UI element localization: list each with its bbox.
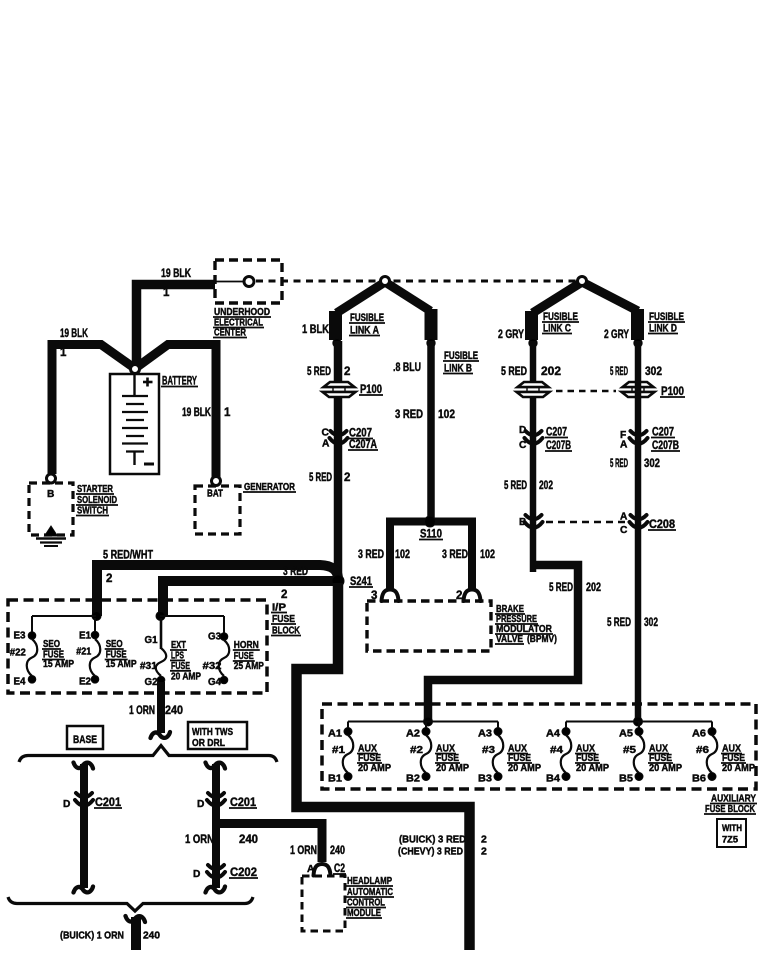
svg-text:5 RED: 5 RED xyxy=(504,480,527,492)
bus stub to G1 fuse xyxy=(160,618,163,649)
wire S110 to BPMV pin 2 (3 RED 102) xyxy=(468,518,476,590)
svg-text:2: 2 xyxy=(281,589,287,601)
svg-text:(CHEVY) 3 RED: (CHEVY) 3 RED xyxy=(398,846,463,858)
svg-text:G3: G3 xyxy=(208,631,221,642)
branch brace (splits BASE / WITH TWS OR DRL) xyxy=(19,746,277,763)
wire feed arm to fusible link A xyxy=(337,282,386,313)
wire S241 down to (BUICK)/(CHEVY) 3 RED feed xyxy=(297,583,470,950)
splice node S110 xyxy=(425,516,436,527)
svg-text:5 RED/WHT: 5 RED/WHT xyxy=(103,550,153,562)
svg-text:2: 2 xyxy=(456,590,462,602)
wire feed arm to fusible link B xyxy=(385,282,431,311)
aux fuse #5 20A element xyxy=(634,735,645,773)
terminal E3 xyxy=(28,632,36,640)
svg-text:.8 BLU: .8 BLU xyxy=(393,362,421,374)
svg-text:102: 102 xyxy=(480,549,495,561)
svg-text:2: 2 xyxy=(344,472,350,484)
bus stub to G3 xyxy=(223,616,225,633)
svg-text:D: D xyxy=(519,425,526,436)
wire 19 BLK battery B+ up to Underhood Electrical Center xyxy=(137,285,216,368)
node below fusible link C xyxy=(529,339,537,347)
svg-text:B1: B1 xyxy=(328,774,342,785)
svg-text:A: A xyxy=(322,439,330,450)
svg-text:G1: G1 xyxy=(145,635,158,646)
battery cell plates xyxy=(133,374,135,395)
wire S110 to BPMV pin 3 (3 RED 102) xyxy=(386,518,394,590)
svg-text:B3: B3 xyxy=(478,774,492,785)
generator BAT terminal circle xyxy=(212,477,221,486)
grommet P100 (column D) xyxy=(622,387,654,392)
svg-text:2: 2 xyxy=(344,366,350,378)
TWS/DRL branch wire (1 ORN 240) xyxy=(212,764,220,888)
terminal G4 xyxy=(220,676,228,684)
brake pressure modulator valve dashed box xyxy=(367,601,491,651)
BASE branch wire start curl xyxy=(74,763,94,769)
svg-text:A2: A2 xyxy=(406,729,420,740)
wire (BUICK) 1 ORN 240 going off page xyxy=(131,917,141,950)
terminal B3 xyxy=(494,773,502,781)
BASE branch wire (1 ORN 240) xyxy=(80,764,88,888)
aux fuse #1 20A element xyxy=(343,735,354,773)
svg-text:B4: B4 xyxy=(546,774,560,785)
svg-text:5 RED: 5 RED xyxy=(610,366,628,378)
svg-text:202: 202 xyxy=(539,480,553,492)
svg-text:20 AMP: 20 AMP xyxy=(171,671,201,682)
svg-text:A: A xyxy=(620,512,628,523)
wire fusible link B down to splice S110 (3 RED circuit 102) xyxy=(427,341,435,520)
splice node S241 xyxy=(332,575,344,587)
svg-text:20 AMP: 20 AMP xyxy=(508,763,541,774)
battery + mark xyxy=(146,378,149,387)
svg-text:#22: #22 xyxy=(10,648,26,659)
svg-text:C: C xyxy=(620,525,628,536)
grommet P100 (column C) xyxy=(517,387,549,392)
wire fusible link A down to S241 (5 RED circuit 2) xyxy=(334,341,343,578)
svg-text:A: A xyxy=(620,440,628,451)
svg-text:OR DRL: OR DRL xyxy=(192,738,225,749)
svg-text:#21: #21 xyxy=(76,647,91,658)
svg-text:#32: #32 xyxy=(203,661,222,672)
generator dashed box xyxy=(195,486,240,534)
terminal E1 xyxy=(91,631,99,639)
svg-text:2: 2 xyxy=(481,834,487,846)
wire 3 RED from S241 to I/P fuse block xyxy=(163,581,336,616)
feed node circle (peak 2) xyxy=(578,277,587,286)
svg-text:202: 202 xyxy=(541,366,561,378)
svg-text:B: B xyxy=(519,517,526,528)
battery - mark xyxy=(144,463,154,466)
svg-text:C: C xyxy=(519,440,527,451)
terminal B5 xyxy=(635,773,643,781)
wire feed arm to fusible link D xyxy=(582,282,638,311)
WITH TWS OR DRL option box xyxy=(188,722,247,749)
svg-text:240: 240 xyxy=(165,705,183,717)
svg-text:C: C xyxy=(322,428,330,439)
svg-text:E2: E2 xyxy=(79,677,91,688)
bus stub to A2 xyxy=(425,722,427,730)
bus stub to A6 xyxy=(711,722,713,730)
wire TWS branch to headlamp module feed (1 ORN 240) xyxy=(216,824,322,863)
svg-text:B: B xyxy=(47,489,54,500)
aux fuse #3 20A element xyxy=(493,735,504,773)
feed node (5 RED 302 into aux bus) xyxy=(634,717,643,726)
svg-text:D: D xyxy=(197,799,204,810)
svg-text:B5: B5 xyxy=(619,774,633,785)
svg-text:1: 1 xyxy=(163,287,170,299)
svg-text:302: 302 xyxy=(644,458,660,470)
fuse HORN 25A #32 element xyxy=(219,640,230,676)
wire end curl xyxy=(151,732,171,738)
terminal B6 xyxy=(708,773,716,781)
svg-text:102: 102 xyxy=(395,549,410,561)
svg-text:WITH: WITH xyxy=(722,823,742,833)
bus stub to A1 xyxy=(347,722,349,730)
starter solenoid switch dashed box xyxy=(29,483,73,535)
terminal B4 xyxy=(562,773,570,781)
svg-text:5 RED: 5 RED xyxy=(307,366,331,378)
svg-text:B6: B6 xyxy=(692,774,706,785)
dashed tie between P100 grommets xyxy=(556,390,616,393)
dashed wire from UEC to fusible link feed points xyxy=(256,280,578,283)
connector B (column C inline) xyxy=(526,515,542,519)
svg-text:1 BLK: 1 BLK xyxy=(302,324,330,336)
connector C201 on BASE branch (pin D) xyxy=(76,793,92,797)
svg-text:(BUICK) 3 RED: (BUICK) 3 RED xyxy=(399,834,466,846)
wire fusible link D down to auxiliary fuse block (5 RED circuit 302) xyxy=(635,341,642,719)
wire 5 RED/WHT from S241 to I/P fuse block (circuit 2) xyxy=(97,565,338,616)
bus stub to A5 xyxy=(638,722,640,730)
wire G2 out of fuse block (1 ORN circuit 240) xyxy=(157,682,165,733)
terminal A1 xyxy=(344,728,352,736)
aux bus wire A1-A3 xyxy=(348,721,498,723)
svg-text:1: 1 xyxy=(224,407,231,419)
battery box xyxy=(110,374,159,474)
fuse SEO 15A #22 element xyxy=(27,639,38,676)
connector C202 on TWS branch (pin D) xyxy=(208,865,224,869)
svg-text:102: 102 xyxy=(438,409,455,421)
svg-text:1: 1 xyxy=(60,347,67,359)
starter solenoid terminal circle B xyxy=(47,474,56,483)
svg-text:2: 2 xyxy=(481,846,487,858)
svg-text:#2: #2 xyxy=(410,745,424,756)
pin fork BPMV pin 2 xyxy=(464,590,481,602)
TWS branch wire end curl xyxy=(206,887,226,893)
aux bus wire A4-A6 xyxy=(566,721,712,723)
svg-text:240: 240 xyxy=(239,834,258,846)
svg-text:5 RED: 5 RED xyxy=(501,366,527,378)
feed node (3 RED into fuse bus) xyxy=(156,612,165,621)
svg-text:#4: #4 xyxy=(550,745,564,756)
fuse EXT LPS 20A #31 element xyxy=(156,648,167,676)
dashed tie between connector B and C208 xyxy=(546,521,628,524)
bus stub to E3 xyxy=(31,616,33,633)
svg-text:19 BLK: 19 BLK xyxy=(182,407,212,419)
terminal A2 xyxy=(422,728,430,736)
svg-text:19 BLK: 19 BLK xyxy=(161,268,192,280)
svg-text:#1: #1 xyxy=(332,745,346,756)
svg-text:#6: #6 xyxy=(696,745,710,756)
svg-text:15 AMP: 15 AMP xyxy=(106,659,137,670)
svg-text:5 RED: 5 RED xyxy=(309,472,332,484)
svg-text:240: 240 xyxy=(143,930,160,942)
TWS/DRL branch wire start curl xyxy=(206,763,226,769)
bus wire E1-E3 xyxy=(32,615,96,617)
connector C201 on TWS branch (pin D) xyxy=(208,793,224,797)
svg-text:B2: B2 xyxy=(406,774,420,785)
connector C207 / C207B on column D (pins F / A) xyxy=(631,431,647,435)
wire battery to generator BAT (19 BLK circuit 1) xyxy=(133,345,216,478)
svg-text:A3: A3 xyxy=(478,729,492,740)
UEC terminal circle xyxy=(244,277,254,287)
terminal B2 xyxy=(422,773,430,781)
wire fusible link C down (5 RED circuit 202) xyxy=(530,341,537,572)
svg-text:#3: #3 xyxy=(482,745,496,756)
svg-text:5 RED: 5 RED xyxy=(549,582,573,594)
svg-text:302: 302 xyxy=(644,617,658,629)
node below fusible link A xyxy=(333,339,341,347)
svg-text:A4: A4 xyxy=(546,729,560,740)
node below fusible link B xyxy=(427,339,435,347)
svg-text:1 ORN: 1 ORN xyxy=(185,834,214,846)
terminal E2 xyxy=(91,676,99,684)
node below fusible link D xyxy=(634,339,642,347)
option box WITH 7Z5 xyxy=(717,819,746,847)
svg-text:20 AMP: 20 AMP xyxy=(436,763,469,774)
terminal A3 xyxy=(494,728,502,736)
svg-text:302: 302 xyxy=(645,366,662,378)
svg-text:20 AMP: 20 AMP xyxy=(358,763,391,774)
svg-text:1 ORN: 1 ORN xyxy=(129,705,155,717)
UEC internal lead xyxy=(216,281,245,283)
svg-text:3 RED: 3 RED xyxy=(395,409,423,421)
fusible link A element (thick) xyxy=(329,311,342,340)
grommet P100 (column A) xyxy=(323,387,355,392)
svg-text:2 GRY: 2 GRY xyxy=(498,329,524,341)
terminal G2 xyxy=(157,676,165,684)
BASE option box xyxy=(67,726,103,749)
BASE branch wire end curl xyxy=(74,887,94,893)
svg-text:E4: E4 xyxy=(14,677,26,688)
terminal A6 xyxy=(708,728,716,736)
aux fuse #4 20A element xyxy=(561,735,572,773)
merged wire start curl xyxy=(126,916,146,922)
svg-text:25 AMP: 25 AMP xyxy=(234,661,264,672)
svg-text:E1: E1 xyxy=(79,631,91,642)
wire feed arm to fusible link C xyxy=(533,282,583,313)
svg-text:3 RED: 3 RED xyxy=(283,566,308,578)
underhood electrical center dashed box xyxy=(215,260,282,303)
fuse SEO 15A #21 element xyxy=(90,639,101,676)
svg-text:(BPMV): (BPMV) xyxy=(527,633,557,645)
svg-text:5 RED: 5 RED xyxy=(607,617,631,629)
terminal A5 xyxy=(635,728,643,736)
connector C208 on column D (pins A / C) xyxy=(631,515,647,519)
bus wire G1-G3 xyxy=(160,615,224,617)
fusible link B element (thick) xyxy=(425,309,438,340)
svg-text:#5: #5 xyxy=(623,745,637,756)
feed node circle (peak 1) xyxy=(381,277,390,286)
connector C207 / C207B on column C (pins D / C) xyxy=(526,431,542,435)
svg-text:G2: G2 xyxy=(145,677,158,688)
svg-text:2: 2 xyxy=(106,573,112,585)
aux fuse #6 20A element xyxy=(707,735,718,773)
svg-text:D: D xyxy=(63,799,70,810)
battery B+ terminal node xyxy=(131,365,140,374)
ground symbol (starter solenoid case ground) xyxy=(45,526,58,536)
svg-text:7Z5: 7Z5 xyxy=(722,835,738,845)
svg-text:D: D xyxy=(193,869,200,880)
wire battery to starter solenoid (19 BLK circuit 1) xyxy=(52,345,137,475)
svg-text:240: 240 xyxy=(330,845,345,857)
bus stub to E1 xyxy=(94,618,96,632)
terminal G3 xyxy=(220,633,228,641)
svg-text:2 GRY: 2 GRY xyxy=(604,329,629,341)
I/P fuse block dashed box xyxy=(8,600,267,693)
svg-text:3 RED: 3 RED xyxy=(358,549,384,561)
svg-text:A: A xyxy=(307,864,315,875)
aux fuse #2 20A element xyxy=(421,735,432,773)
svg-text:5 RED: 5 RED xyxy=(610,458,628,470)
headlamp automatic control module dashed box xyxy=(302,876,345,931)
svg-text:(BUICK) 1 ORN: (BUICK) 1 ORN xyxy=(60,930,124,942)
bus stub to A3 xyxy=(497,722,499,730)
svg-text:1 ORN: 1 ORN xyxy=(290,845,317,857)
svg-text:#31: #31 xyxy=(140,661,157,672)
fusible link D element (thick) xyxy=(631,309,644,340)
svg-text:19 BLK: 19 BLK xyxy=(60,328,88,340)
svg-text:G4: G4 xyxy=(208,677,221,688)
svg-text:BAT: BAT xyxy=(207,489,224,500)
wire column C jog to auxiliary fuse block feed (5 RED 202) xyxy=(428,565,578,719)
svg-text:15 AMP: 15 AMP xyxy=(43,659,74,670)
fusible link C element (thick) xyxy=(525,311,538,340)
terminal B1 xyxy=(344,773,352,781)
terminal E4 xyxy=(28,676,36,684)
svg-text:202: 202 xyxy=(586,582,601,594)
connector C207 / C207A (pins C / A) xyxy=(331,431,347,435)
svg-text:3 RED: 3 RED xyxy=(442,549,468,561)
auxiliary fuse block dashed box xyxy=(322,704,756,789)
bus stub to A4 xyxy=(565,722,567,730)
svg-text:BASE: BASE xyxy=(73,734,97,746)
merge brace (bottom) xyxy=(8,897,253,911)
svg-text:E3: E3 xyxy=(14,631,26,642)
feed node (5 RED/WHT into fuse bus) xyxy=(92,612,101,621)
svg-text:20 AMP: 20 AMP xyxy=(722,763,755,774)
svg-text:WITH TWS: WITH TWS xyxy=(192,727,233,738)
svg-text:A6: A6 xyxy=(692,729,706,740)
svg-text:20 AMP: 20 AMP xyxy=(576,763,609,774)
splice S110 bus bar xyxy=(386,518,476,526)
svg-text:A1: A1 xyxy=(328,729,342,740)
pin fork C2 pin A xyxy=(314,864,331,876)
svg-text:A5: A5 xyxy=(619,729,633,740)
svg-text:20 AMP: 20 AMP xyxy=(649,763,682,774)
feed node (5 RED 202 into aux bus) xyxy=(424,717,433,726)
terminal A4 xyxy=(562,728,570,736)
pin fork BPMV pin 3 xyxy=(382,590,399,602)
